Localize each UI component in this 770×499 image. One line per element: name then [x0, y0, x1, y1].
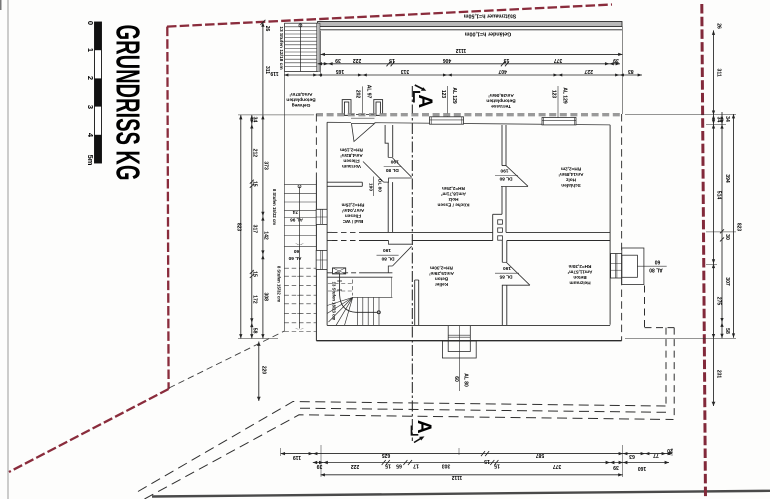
svg-text:212: 212 [251, 149, 257, 158]
porch column left [342, 100, 351, 116]
building right wall [610, 114, 622, 341]
corridor wall [327, 273, 392, 277]
door DL80 keller label [377, 247, 399, 261]
section line A-A [411, 86, 413, 441]
svg-text:Beton: Beton [435, 276, 448, 281]
svg-text:373: 373 [263, 161, 269, 170]
svg-text:34: 34 [251, 117, 257, 123]
svg-text:Küche / Essen: Küche / Essen [437, 202, 469, 207]
door leaf schlafen [495, 166, 528, 187]
svg-text:34: 34 [724, 116, 730, 122]
property boundary red top diagonal [167, 5, 612, 27]
svg-text:RH=2,19m: RH=2,19m [340, 147, 363, 152]
svg-text:3: 3 [86, 105, 95, 109]
svg-text:60: 60 [655, 259, 661, 265]
svg-text:Beton: Beton [573, 275, 586, 280]
svg-text:DL 80: DL 80 [381, 256, 394, 262]
dashed path right side steps [645, 286, 675, 418]
left dim chain middle [250, 115, 258, 339]
stair top-left 13 Stufen [285, 23, 320, 71]
right dim chain R1 [712, 23, 722, 338]
svg-text:RH=2,25m: RH=2,25m [342, 202, 365, 207]
svg-text:26: 26 [264, 26, 270, 32]
svg-text:190: 190 [367, 183, 373, 191]
setback black dashed diagonal [169, 331, 284, 388]
svg-text:231: 231 [716, 370, 722, 379]
dimension row3 chain [270, 68, 642, 76]
svg-text:123: 123 [440, 90, 446, 99]
svg-text:317: 317 [251, 225, 257, 234]
building bottom wall [316, 325, 621, 340]
retaining wall band [318, 22, 622, 30]
label 8 Stufen lower [277, 266, 282, 302]
svg-text:60: 60 [294, 248, 300, 254]
svg-text:Gehweg: Gehweg [292, 102, 311, 108]
svg-text:119: 119 [270, 70, 278, 76]
svg-text:39: 39 [613, 57, 619, 63]
svg-text:8 Stufen 15/32 cm: 8 Stufen 15/32 cm [277, 266, 282, 302]
room label kueche-essen [437, 186, 469, 208]
keller door return [389, 241, 412, 245]
svg-text:123: 123 [551, 90, 557, 99]
svg-text:65: 65 [396, 462, 402, 468]
room label vorraum [340, 147, 363, 169]
door leaf heizraum [495, 263, 530, 286]
svg-text:222: 222 [353, 57, 362, 63]
svg-text:39: 39 [317, 463, 323, 469]
scale bar labels [86, 21, 95, 166]
svg-text:GRUNDRISS KG: GRUNDRISS KG [110, 25, 147, 181]
svg-text:514: 514 [716, 191, 722, 200]
svg-text:DL 85: DL 85 [499, 273, 512, 279]
svg-text:190: 190 [390, 159, 398, 165]
svg-text:63: 63 [629, 453, 635, 459]
label Stuetzmauer [464, 13, 517, 19]
svg-text:407: 407 [498, 68, 507, 74]
window leader AL 129 left [440, 86, 457, 124]
svg-text:Fliesen: Fliesen [345, 213, 361, 218]
svg-text:77: 77 [653, 452, 659, 458]
middle wall horizontal [327, 232, 610, 240]
svg-text:394: 394 [724, 174, 730, 183]
porch column right [374, 100, 383, 116]
svg-text:A: A [414, 94, 435, 108]
svg-text:1: 1 [86, 48, 95, 52]
svg-text:AL 96: AL 96 [290, 217, 303, 223]
svg-text:165: 165 [336, 68, 345, 74]
svg-text:1112: 1112 [455, 47, 466, 53]
svg-text:308: 308 [263, 292, 269, 301]
porch door leader AL 97 [355, 85, 372, 114]
exterior stair landing lines [284, 226, 316, 247]
right dim 231 [712, 338, 722, 406]
sheet corner tick top-left [0, 0, 2, 10]
svg-text:39: 39 [335, 57, 341, 63]
light shaft bottom labels [453, 326, 469, 391]
left dim chain outer 823 [236, 115, 243, 339]
svg-text:5m: 5m [86, 155, 95, 166]
svg-text:222: 222 [351, 463, 360, 469]
svg-text:303: 303 [442, 462, 451, 468]
svg-text:Betonplatten: Betonplatten [486, 97, 515, 103]
svg-text:AL 80: AL 80 [463, 373, 469, 387]
svg-text:AL 60: AL 60 [288, 255, 301, 261]
svg-text:190: 190 [383, 247, 391, 253]
right dim chain R2 [720, 112, 730, 338]
svg-text:Am14,85m²: Am14,85m² [558, 172, 583, 177]
window right wall AL80 [611, 254, 622, 279]
bottom extension lines [281, 445, 672, 477]
svg-text:AL 129: AL 129 [451, 87, 457, 104]
svg-text:15: 15 [251, 181, 257, 187]
porch threshold [351, 114, 374, 116]
svg-text:823: 823 [236, 223, 242, 232]
svg-text:119: 119 [293, 454, 301, 460]
vent boxes [333, 268, 346, 274]
svg-text:15: 15 [504, 57, 510, 63]
svg-text:160: 160 [638, 465, 647, 471]
vorraum lower right wall [388, 182, 392, 232]
property boundary red left vertical [167, 27, 168, 389]
stair walk line with curve [337, 269, 380, 314]
svg-text:Am18,71m²: Am18,71m² [441, 191, 466, 196]
window leader AL 129 right [551, 86, 568, 125]
left dim 220 [257, 342, 266, 402]
svg-text:190: 190 [500, 168, 508, 174]
svg-text:DL 80: DL 80 [385, 167, 398, 173]
property boundary red right vertical [702, 4, 706, 499]
building left wall [316, 114, 327, 341]
svg-text:13 Stufen 12/18 cm: 13 Stufen 12/18 cm [278, 26, 284, 69]
heizraum left wall [502, 241, 530, 326]
label Gehweg [286, 91, 315, 108]
svg-text:227: 227 [584, 68, 593, 74]
svg-text:8 Stufen 15/32 cm: 8 Stufen 15/32 cm [272, 189, 277, 225]
door leaf bad [363, 162, 384, 183]
building top wall dashed [316, 114, 622, 115]
door swing porch-vorraum [352, 124, 375, 142]
right dim chain R3 823 [732, 114, 742, 338]
svg-text:Terrasse: Terrasse [491, 103, 511, 109]
small labels left wall windows [288, 209, 303, 261]
svg-text:Am4,87m²: Am4,87m² [289, 91, 312, 97]
svg-text:Keller: Keller [435, 282, 448, 287]
fan stair keller [327, 277, 392, 325]
svg-text:58: 58 [724, 328, 730, 334]
bottom dim chain3 1112 [321, 473, 623, 480]
svg-text:58: 58 [251, 328, 257, 334]
svg-text:Holz: Holz [565, 177, 576, 182]
window left wall lower AL60 [316, 250, 327, 269]
svg-text:311: 311 [264, 66, 270, 74]
left extension lines [238, 115, 314, 339]
svg-text:RH=2,30m: RH=2,30m [430, 265, 453, 270]
window AL129 top right [542, 118, 576, 125]
svg-text:RH=2,30m: RH=2,30m [569, 264, 592, 269]
svg-text:60: 60 [453, 376, 459, 382]
wall kueche-schlafen divider [493, 125, 506, 241]
exterior stair left upper flight [284, 72, 316, 332]
label Terrasse [486, 92, 515, 109]
svg-text:15: 15 [385, 462, 391, 468]
svg-text:377: 377 [554, 57, 563, 63]
section marker bottom [412, 420, 435, 443]
svg-text:AL 97: AL 97 [365, 85, 371, 99]
svg-text:Am36,06m²: Am36,06m² [488, 92, 514, 98]
svg-text:39: 39 [613, 464, 619, 470]
vorraum right wall [385, 125, 393, 157]
svg-text:83: 83 [628, 68, 634, 74]
left dim 311 [260, 20, 270, 115]
title GRUNDRISS KG [110, 25, 147, 181]
window left wall upper AL96 [316, 209, 327, 224]
svg-text:Am15,29m²: Am15,29m² [429, 271, 454, 276]
svg-text:587: 587 [536, 452, 545, 458]
scale bar [95, 22, 102, 163]
svg-text:Am4,82m²: Am4,82m² [340, 153, 363, 158]
svg-text:15: 15 [251, 271, 257, 277]
svg-text:30: 30 [724, 234, 730, 240]
svg-text:823: 823 [736, 223, 742, 232]
light shaft bottom [442, 326, 476, 358]
property boundary red left lower diagonal [9, 389, 169, 472]
svg-text:A: A [413, 420, 434, 434]
svg-text:RH=2,2m: RH=2,2m [561, 166, 581, 171]
svg-text:307: 307 [724, 277, 730, 286]
svg-text:Stützmauer h=1,50m: Stützmauer h=1,50m [464, 13, 517, 19]
chimney flue squares [498, 220, 503, 240]
exterior stair left lower flight dashed [284, 268, 316, 331]
svg-text:275: 275 [716, 297, 722, 306]
section marker top [414, 85, 435, 108]
svg-text:311: 311 [716, 68, 722, 76]
bottom dim chain1 [281, 447, 673, 464]
sheet border bottom [152, 491, 770, 497]
window AL129 top left [430, 117, 464, 124]
keller left wall [415, 280, 419, 325]
svg-text:Geländer h=1,00m: Geländer h=1,00m [464, 31, 511, 37]
label Gelaender [464, 31, 511, 37]
svg-text:Vorraum: Vorraum [342, 164, 361, 169]
left dim chain inner [261, 115, 268, 339]
label 13 Stufen 12/18 cm [278, 26, 284, 69]
svg-text:142: 142 [263, 231, 269, 240]
light shaft right [622, 248, 644, 285]
svg-text:202: 202 [355, 90, 361, 99]
svg-text:26: 26 [716, 23, 722, 29]
right extension lines [625, 115, 736, 339]
svg-text:Am7,04m²: Am7,04m² [341, 208, 364, 213]
svg-text:RH=2,25m: RH=2,25m [442, 186, 465, 191]
headroom dashed lines [328, 280, 353, 296]
door leaf keller [388, 246, 411, 272]
svg-text:Heizraum: Heizraum [569, 280, 590, 285]
room label heizraum [567, 264, 592, 286]
door DL80 bad label vertical [367, 177, 382, 197]
porch sill [351, 115, 375, 119]
svg-text:15: 15 [494, 462, 500, 468]
svg-text:377: 377 [553, 463, 562, 469]
svg-text:DL 80: DL 80 [376, 179, 382, 192]
svg-text:13 Stufen 18/23 cm: 13 Stufen 18/23 cm [331, 282, 336, 321]
svg-text:Holz: Holz [448, 197, 459, 202]
svg-text:15: 15 [389, 57, 395, 63]
room label keller [429, 265, 454, 287]
door leaf kueche [384, 158, 412, 182]
dimension row1 1112 [321, 27, 623, 115]
stair center line with arrows [295, 185, 304, 330]
svg-text:220: 220 [260, 366, 266, 375]
svg-text:Schlafen: Schlafen [561, 183, 581, 188]
room label schlafen [558, 166, 583, 188]
svg-text:313: 313 [401, 68, 410, 74]
svg-text:74: 74 [293, 209, 299, 215]
svg-text:0: 0 [86, 21, 95, 25]
svg-text:AL 80: AL 80 [649, 266, 663, 272]
svg-text:1112: 1112 [451, 474, 462, 480]
svg-text:AL 129: AL 129 [561, 87, 567, 104]
vorraum-bad wall [327, 182, 362, 186]
dimension row2 chain [318, 57, 620, 66]
svg-text:Fliesen: Fliesen [343, 158, 359, 163]
svg-text:Bad / WC: Bad / WC [342, 219, 363, 224]
svg-text:190: 190 [503, 265, 511, 271]
svg-text:2: 2 [86, 76, 95, 80]
svg-text:406: 406 [443, 57, 452, 63]
label 8 Stufen upper [272, 189, 277, 225]
bottom dim chain2 [313, 460, 669, 471]
svg-text:DL 80: DL 80 [499, 176, 512, 182]
door DL80 kueche label [384, 159, 402, 173]
svg-text:Am11,57m²: Am11,57m² [567, 269, 592, 274]
walkway dashed diagonal lines [138, 402, 674, 499]
room label bad-wc [341, 202, 364, 224]
top wall inner face line [327, 122, 610, 125]
svg-text:Betonplatten: Betonplatten [286, 96, 315, 102]
light shaft right labels [637, 259, 666, 273]
svg-text:34: 34 [716, 117, 722, 123]
svg-text:625: 625 [382, 452, 391, 458]
label 13 Stufen stairs keller [331, 282, 336, 321]
sheet border left [7, 0, 9, 499]
svg-text:17: 17 [413, 462, 419, 468]
svg-text:172: 172 [251, 295, 257, 304]
